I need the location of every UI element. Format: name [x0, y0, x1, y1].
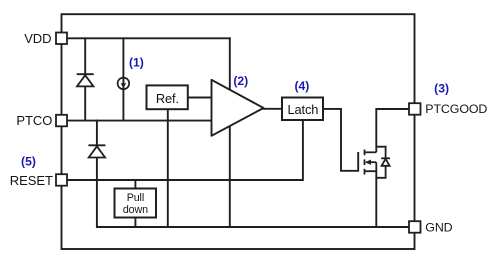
pad VDD — [56, 33, 67, 45]
wire GND rail — [97, 226, 409, 228]
svg-text:PTCO: PTCO — [16, 113, 52, 128]
pad PTCO — [56, 115, 67, 127]
pad PTCGOOD — [409, 103, 421, 115]
svg-text:(4): (4) — [294, 79, 309, 93]
svg-text:Ref.: Ref. — [156, 91, 179, 106]
wire D2 branch — [96, 121, 98, 227]
svg-text:RESET: RESET — [10, 173, 53, 188]
svg-text:(1): (1) — [129, 56, 144, 70]
svg-text:(2): (2) — [233, 74, 248, 88]
pad RESET — [56, 174, 67, 186]
svg-text:(3): (3) — [434, 81, 449, 95]
outer boundary box — [62, 14, 415, 249]
diode D1 (PTCO to VDD clamp) — [77, 74, 94, 86]
wire PTCO net — [67, 120, 212, 122]
diode body diode of Q1 — [376, 147, 390, 178]
svg-text:VDD: VDD — [24, 31, 51, 46]
wire comparator supply drop (VDD rail down to GND rail, behind comparator) — [229, 38, 231, 227]
wire MOSFET source to GND rail — [375, 171, 377, 227]
wire current source branch — [122, 38, 124, 120]
pad GND — [409, 221, 421, 233]
wire comparator output to Latch — [264, 108, 283, 110]
svg-text:Pull: Pull — [127, 192, 144, 204]
svg-text:Latch: Latch — [287, 102, 318, 117]
svg-text:(5): (5) — [21, 155, 36, 169]
wire pull-down top stub — [134, 180, 136, 189]
svg-text:GND: GND — [425, 221, 452, 235]
op-amp comparator (2) — [212, 80, 264, 136]
wire Latch output to MOSFET gate — [323, 109, 358, 171]
wire RESET net to Latch bottom — [67, 120, 303, 180]
current source (1) — [118, 78, 130, 90]
wire VDD rail — [67, 37, 230, 39]
wire pull-down bottom stub — [134, 218, 136, 228]
wire Ref output to comparator — [188, 97, 212, 99]
svg-text:PTCGOOD: PTCGOOD — [425, 102, 487, 116]
block Latch — [282, 98, 323, 121]
wire MOSFET drain to PTCGOOD — [376, 109, 409, 147]
block Ref. — [147, 85, 188, 109]
diode D2 (GND to PTCO clamp) — [88, 145, 105, 157]
wire Ref ground branch — [167, 109, 169, 227]
transistor Q1 n-channel MOSFET — [365, 147, 377, 175]
svg-text:down: down — [123, 204, 148, 216]
block Pull down — [115, 189, 157, 218]
wire D1 branch — [84, 38, 86, 120]
